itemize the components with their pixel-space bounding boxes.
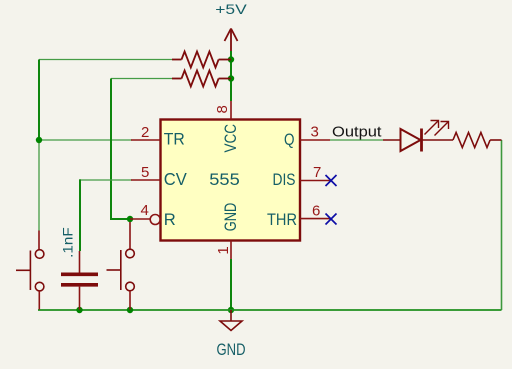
svg-text:Output: Output [332, 124, 382, 140]
svg-text:1: 1 [215, 246, 232, 254]
LED emission arrow 1 [425, 121, 439, 135]
svg-text:GND: GND [221, 203, 240, 232]
pin 5 CV [131, 179, 161, 181]
resistor R1 [172, 52, 231, 68]
wire bottom horizontal ground bus [38, 309, 502, 311]
power symbol +5V arrow [225, 29, 238, 52]
label GND rotated inside IC [221, 203, 240, 232]
wire vertical from R2 down to pin4 row [111, 79, 130, 220]
svg-text:TR: TR [164, 131, 185, 149]
switch SW1 push button [16, 231, 44, 310]
pin number 8 rotated [214, 105, 231, 113]
pin 1 GND [230, 241, 232, 260]
pin number 2 [141, 124, 149, 141]
label 555 [209, 170, 240, 189]
svg-text:8: 8 [214, 105, 231, 113]
junction R1 right [228, 56, 234, 62]
capacitor C1 plates [61, 274, 98, 285]
pin 8 VCC [230, 101, 232, 120]
label TR [164, 131, 185, 149]
junction GND bottom wire [228, 307, 234, 313]
label GND [217, 341, 246, 359]
capacitor C1 top pin [79, 251, 81, 273]
pin 2 TR [131, 139, 161, 141]
wire VCC vertical above IC [230, 51, 232, 101]
value label .1nF rotated [59, 227, 75, 258]
no-connect X on pin 6 [326, 214, 337, 225]
svg-text:6: 6 [312, 203, 320, 220]
wire second horizontal net R2 [111, 78, 172, 80]
pin number 5 [141, 164, 149, 181]
pin 4 R with inverting bubble [130, 215, 160, 225]
svg-text:555: 555 [209, 170, 240, 189]
wire top-left horizontal net VCC to R1 [39, 59, 172, 61]
wire left vertical from R1 to SW1 [38, 60, 40, 231]
wire GND vertical below IC pin 1 [230, 259, 232, 310]
wire TR net horizontal [39, 139, 132, 141]
pin number 3 [311, 124, 319, 141]
resistor R2 [172, 71, 231, 87]
svg-text:2: 2 [141, 124, 149, 141]
svg-text:3: 3 [311, 124, 319, 141]
junction R2 right [228, 75, 234, 81]
resistor R3 [453, 133, 502, 148]
pin 3 Q [300, 139, 330, 141]
pin 6 THR [300, 218, 330, 220]
label +5V [215, 2, 247, 17]
wire right vertical from R3 to bottom bus [501, 140, 503, 310]
pin number 6 [312, 203, 320, 220]
junction at TR wire and left vertical [36, 137, 42, 143]
svg-text:VCC: VCC [221, 124, 240, 153]
pin 7 DIS [300, 180, 330, 182]
LED emission arrow 2 [435, 122, 449, 136]
label THR [267, 211, 297, 229]
wire CV net horizontal and down to capacitor [80, 179, 132, 251]
label R [164, 211, 176, 229]
svg-text:CV: CV [164, 169, 187, 189]
wire Q output horizontal [330, 139, 383, 141]
junction SW2 at bus [127, 307, 133, 313]
ground symbol [220, 310, 242, 331]
junction capacitor at bus [76, 307, 82, 313]
junction at pin 4 node [127, 216, 133, 222]
svg-text:R: R [164, 211, 176, 229]
svg-text:+5V: +5V [215, 2, 247, 17]
pin number 4 [140, 202, 148, 219]
no-connect X on pin 7 [326, 175, 337, 186]
pin number 7 [313, 164, 321, 181]
net label Output [332, 124, 382, 140]
label DIS [273, 171, 296, 189]
label CV [164, 169, 187, 189]
timer IC U1 555 body [161, 120, 301, 241]
svg-text:5: 5 [141, 164, 149, 181]
svg-text:GND: GND [217, 341, 246, 359]
svg-text:THR: THR [267, 211, 297, 229]
switch SW2 push button [107, 222, 135, 310]
capacitor C1 bottom pin [79, 287, 81, 310]
label Q [284, 131, 295, 149]
pin number 1 rotated [215, 246, 232, 254]
svg-text:4: 4 [140, 202, 148, 219]
label VCC rotated [221, 124, 240, 153]
svg-text:.1nF: .1nF [59, 227, 75, 258]
svg-text:7: 7 [313, 164, 321, 181]
LED D1 [383, 129, 453, 152]
svg-text:Q: Q [284, 131, 295, 149]
svg-text:DIS: DIS [273, 171, 296, 189]
